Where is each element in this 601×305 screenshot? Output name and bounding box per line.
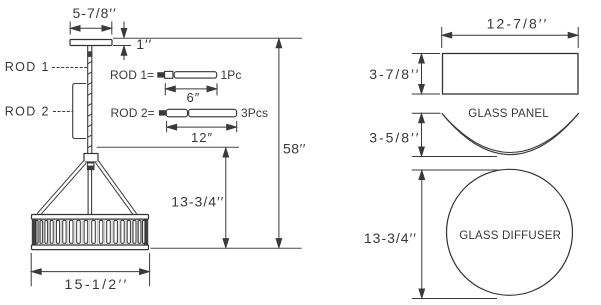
svg-text:13-3/4′′: 13-3/4′′ <box>364 230 417 246</box>
svg-text:ROD 2: ROD 2 <box>5 105 50 119</box>
leader line ROD 1 <box>52 67 87 69</box>
legend rod1 nipple <box>157 72 164 77</box>
svg-text:3-5/8′′: 3-5/8′′ <box>369 130 420 146</box>
fixture top extension line <box>97 146 239 148</box>
dimension 13-3/4 left <box>223 148 229 248</box>
legend rod2 nipple <box>159 110 166 115</box>
glass panel rectangle <box>443 54 579 95</box>
drum bottom rim <box>32 245 149 250</box>
svg-text:13-3/4′′: 13-3/4′′ <box>171 193 224 209</box>
curved glass side view <box>442 113 579 154</box>
glass diffuser circle <box>447 169 573 295</box>
drum top rim <box>32 215 149 220</box>
legend rod2 tube B <box>189 109 237 117</box>
svg-text:58′′: 58′′ <box>283 141 306 157</box>
drum rear slats (seen through gaps) <box>39 220 142 244</box>
collar under block <box>87 163 94 166</box>
dimension 3-7/8 <box>412 54 440 95</box>
rod joint ticks <box>88 61 92 147</box>
svg-text:1′′: 1′′ <box>136 36 152 52</box>
bracket ROD 2 <box>73 84 86 139</box>
rod dark top joint <box>87 51 92 57</box>
left arm <box>38 162 85 215</box>
right arm <box>97 162 135 215</box>
svg-text:GLASS DIFFUSER: GLASS DIFFUSER <box>459 230 561 242</box>
drum slats <box>36 220 145 243</box>
dimension 6 inch <box>165 83 217 95</box>
svg-text:3-7/8′′: 3-7/8′′ <box>369 66 420 82</box>
rod hanging from canopy <box>88 46 92 154</box>
hang block <box>84 154 98 163</box>
dimension 13-3/4 right <box>412 170 500 299</box>
svg-text:12″: 12″ <box>191 130 213 145</box>
center stem to drum <box>88 170 92 215</box>
svg-text:ROD 1=: ROD 1= <box>110 68 154 82</box>
drum body background <box>33 218 148 246</box>
legend rod2 tube A <box>166 109 187 117</box>
ceiling extension line <box>113 37 302 39</box>
drum left dark edge <box>32 219 37 246</box>
bottom extension line <box>151 247 302 249</box>
dimension 5-7/8 <box>70 22 112 35</box>
dimension 1 inch <box>113 22 131 61</box>
drum right dark edge <box>144 219 149 246</box>
legend rod1 tube <box>174 72 217 78</box>
canopy <box>70 40 112 46</box>
legend rod1 coupler <box>165 71 173 78</box>
dimension 3-5/8 <box>412 113 497 156</box>
svg-text:6″: 6″ <box>187 90 201 105</box>
leader line ROD 2 <box>53 111 73 113</box>
dimension 12-7/8 <box>442 27 579 48</box>
svg-text:ROD 1: ROD 1 <box>5 60 50 74</box>
svg-text:1Pc: 1Pc <box>221 68 242 82</box>
svg-text:5-7/8′′: 5-7/8′′ <box>73 5 117 21</box>
svg-text:12-7/8′′: 12-7/8′′ <box>487 15 549 31</box>
dimension 58 <box>276 39 282 248</box>
dimension 12 inch <box>167 121 237 132</box>
svg-text:15-1/2′′: 15-1/2′′ <box>65 276 129 292</box>
svg-text:3Pcs: 3Pcs <box>241 106 268 120</box>
svg-text:GLASS PANEL: GLASS PANEL <box>468 108 549 120</box>
dimension 15-1/2 <box>31 253 149 286</box>
svg-text:ROD 2=: ROD 2= <box>111 106 155 120</box>
